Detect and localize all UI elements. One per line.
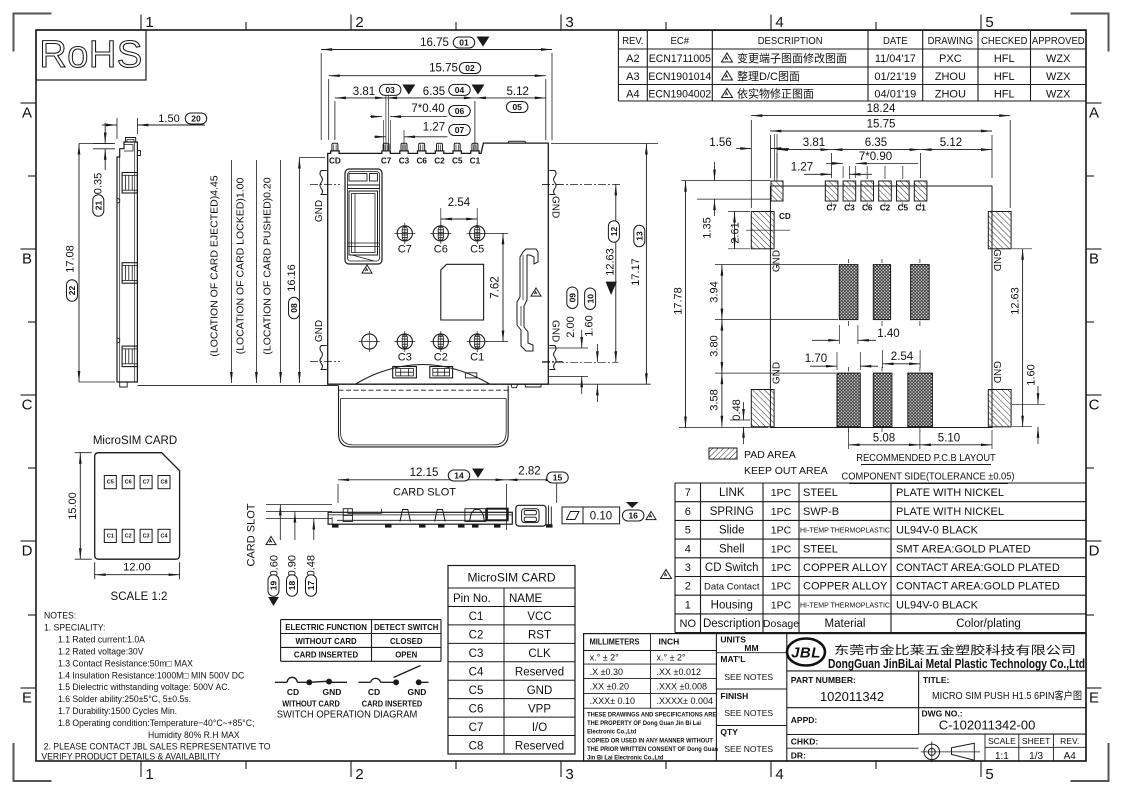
svg-text:OPEN: OPEN bbox=[395, 650, 417, 659]
svg-text:A: A bbox=[22, 105, 32, 122]
svg-text:3.94: 3.94 bbox=[709, 281, 721, 302]
svg-text:2.61: 2.61 bbox=[730, 222, 742, 243]
main top view of SIM connector bbox=[137, 141, 650, 447]
svg-text:C4: C4 bbox=[469, 667, 484, 679]
svg-text:1.60: 1.60 bbox=[583, 315, 595, 336]
svg-text:17.08: 17.08 bbox=[65, 245, 77, 273]
svg-text:C1: C1 bbox=[107, 533, 114, 539]
svg-text:22: 22 bbox=[67, 286, 77, 296]
dimension 15.75 (02) bbox=[328, 79, 330, 140]
svg-text:GND: GND bbox=[772, 250, 783, 272]
dimension 16.16 (08) bbox=[299, 157, 325, 159]
eject spring mechanism bbox=[345, 169, 382, 264]
svg-text:01: 01 bbox=[459, 38, 469, 48]
svg-text:2.54: 2.54 bbox=[891, 351, 914, 363]
svg-text:C7: C7 bbox=[143, 480, 150, 486]
svg-text:1.2 Rated voltage:30V: 1.2 Rated voltage:30V bbox=[58, 646, 143, 656]
CD detect switch contact bbox=[517, 249, 538, 351]
svg-text:B: B bbox=[22, 251, 32, 268]
dimension 3.81 (03) bbox=[334, 101, 336, 140]
svg-text:THE PRIOR WRITTEN CONSENT OF D: THE PRIOR WRITTEN CONSENT OF Dong Guan bbox=[587, 746, 718, 754]
svg-text:03: 03 bbox=[385, 85, 395, 95]
svg-text:TITLE:: TITLE: bbox=[923, 675, 950, 685]
svg-text:7*0.90: 7*0.90 bbox=[859, 151, 892, 163]
svg-text:HFL: HFL bbox=[994, 53, 1015, 65]
svg-text:C8: C8 bbox=[469, 740, 484, 752]
svg-text:CD: CD bbox=[329, 157, 341, 166]
svg-text:PXC: PXC bbox=[939, 53, 962, 65]
svg-text:PART NUMBER:: PART NUMBER: bbox=[791, 675, 856, 685]
svg-text:17: 17 bbox=[306, 581, 316, 591]
svg-text:MAT'L: MAT'L bbox=[720, 654, 745, 664]
svg-text:Color/plating: Color/plating bbox=[956, 618, 1021, 630]
svg-text:NOTES:: NOTES: bbox=[44, 610, 76, 620]
side view of connector bbox=[65, 113, 207, 387]
svg-text:A2: A2 bbox=[626, 53, 639, 65]
MicroSIM pin table bbox=[448, 566, 575, 755]
svg-text:THESE DRAWINGS AND SPECIFICATI: THESE DRAWINGS AND SPECIFICATIONS ARE bbox=[587, 711, 716, 719]
svg-text:SMT AREA:GOLD PLATED: SMT AREA:GOLD PLATED bbox=[896, 543, 1031, 555]
svg-text:Data Contact: Data Contact bbox=[704, 582, 760, 593]
svg-text:C2: C2 bbox=[434, 352, 448, 364]
svg-text:1.8 Operating condition:Temp: 1.8 Operating condition:Temperature−40°C… bbox=[58, 718, 254, 728]
svg-text:APPD:: APPD: bbox=[791, 715, 818, 725]
svg-text:.XXX ±0.008: .XXX ±0.008 bbox=[657, 682, 707, 692]
svg-text:CONTACT AREA:GOLD PLATED: CONTACT AREA:GOLD PLATED bbox=[896, 562, 1060, 574]
svg-text:Jin Bi Lai Electronic Co.,L: Jin Bi Lai Electronic Co.,Ltd bbox=[587, 754, 664, 762]
svg-text:GND: GND bbox=[314, 200, 325, 222]
svg-text:1.6 Solder ability:250±5°C,: 1.6 Solder ability:250±5°C, 5±0.5s. bbox=[58, 694, 191, 704]
svg-text:E: E bbox=[22, 690, 32, 707]
corner GND pads bbox=[751, 212, 774, 249]
svg-text:APPROVED: APPROVED bbox=[1032, 36, 1085, 47]
svg-text:CD: CD bbox=[368, 687, 380, 697]
svg-text:1PC: 1PC bbox=[771, 506, 792, 518]
svg-text:17.78: 17.78 bbox=[673, 287, 685, 315]
svg-text:1:1: 1:1 bbox=[995, 751, 1009, 762]
svg-text:5.10: 5.10 bbox=[938, 433, 960, 445]
svg-text:1PC: 1PC bbox=[771, 525, 792, 537]
svg-text:SCALE 1:2: SCALE 1:2 bbox=[111, 591, 168, 603]
svg-text:CHECKED: CHECKED bbox=[981, 36, 1027, 47]
svg-text:C7: C7 bbox=[469, 722, 484, 734]
svg-text:3: 3 bbox=[565, 14, 573, 31]
svg-text:SWP-B: SWP-B bbox=[803, 506, 839, 518]
svg-text:Housing: Housing bbox=[711, 599, 753, 611]
svg-text:SHEET: SHEET bbox=[1022, 736, 1050, 746]
svg-text:COMPONENT SIDE(TOLERANCE ±0.: COMPONENT SIDE(TOLERANCE ±0.05) bbox=[842, 471, 1015, 482]
svg-text:A: A bbox=[1089, 105, 1099, 122]
svg-text:11/04'17: 11/04'17 bbox=[875, 53, 916, 65]
svg-text:5: 5 bbox=[985, 766, 993, 783]
svg-text:MicroSIM CARD: MicroSIM CARD bbox=[93, 435, 177, 447]
svg-text:02: 02 bbox=[465, 63, 475, 73]
svg-text:4: 4 bbox=[775, 766, 783, 783]
svg-text:ECN1711005: ECN1711005 bbox=[649, 53, 711, 65]
svg-text:1PC: 1PC bbox=[771, 599, 792, 611]
svg-text:3.81: 3.81 bbox=[803, 137, 825, 149]
svg-text:DR:: DR: bbox=[791, 751, 806, 761]
svg-text:CARD INSERTED: CARD INSERTED bbox=[362, 699, 423, 708]
svg-text:4: 4 bbox=[775, 14, 783, 31]
svg-text:16.16: 16.16 bbox=[286, 264, 298, 292]
svg-text:DATE: DATE bbox=[883, 36, 908, 47]
svg-text:C5: C5 bbox=[452, 157, 463, 166]
svg-text:LINK: LINK bbox=[719, 487, 745, 499]
svg-text:CHKD:: CHKD: bbox=[791, 737, 819, 747]
svg-text:2. PLEASE CONTACT JBL SALE: 2. PLEASE CONTACT JBL SALES REPRESENTATI… bbox=[44, 741, 271, 751]
electric function table bbox=[281, 620, 441, 662]
dimension 2.00 (09) bbox=[549, 347, 588, 349]
svg-text:6.35: 6.35 bbox=[423, 86, 445, 98]
svg-text:Electronic Co.,Ltd: Electronic Co.,Ltd bbox=[587, 728, 636, 736]
svg-text:18: 18 bbox=[287, 581, 297, 591]
svg-text:B: B bbox=[1089, 251, 1099, 268]
svg-text:C4: C4 bbox=[160, 533, 168, 539]
svg-text:ECN1904002: ECN1904002 bbox=[648, 88, 711, 100]
svg-text:Material: Material bbox=[825, 618, 866, 630]
svg-text:1.27: 1.27 bbox=[423, 122, 445, 134]
svg-text:GND: GND bbox=[323, 687, 342, 697]
svg-text:06: 06 bbox=[455, 106, 465, 116]
svg-text:5: 5 bbox=[685, 525, 691, 537]
svg-text:整理D/C图面: 整理D/C图面 bbox=[737, 69, 800, 83]
svg-text:3.80: 3.80 bbox=[709, 335, 721, 356]
svg-text:GND: GND bbox=[991, 361, 1002, 383]
svg-text:15.75: 15.75 bbox=[429, 63, 458, 75]
svg-text:1: 1 bbox=[145, 14, 153, 31]
svg-text:Dosage: Dosage bbox=[763, 618, 799, 630]
svg-text:SWITCH OPERATION DIAGRAM: SWITCH OPERATION DIAGRAM bbox=[277, 709, 418, 720]
svg-text:DESCRIPTION: DESCRIPTION bbox=[758, 36, 823, 47]
svg-text:7: 7 bbox=[685, 487, 691, 499]
svg-text:12.15: 12.15 bbox=[410, 467, 439, 479]
svg-text:08: 08 bbox=[289, 303, 299, 313]
svg-text:13: 13 bbox=[635, 231, 645, 241]
svg-text:WITHOUT CARD: WITHOUT CARD bbox=[295, 637, 356, 646]
svg-text:C3: C3 bbox=[143, 533, 150, 539]
svg-text:UL94V-0 BLACK: UL94V-0 BLACK bbox=[896, 525, 979, 537]
svg-text:GND: GND bbox=[314, 320, 325, 342]
svg-text:C8: C8 bbox=[160, 480, 167, 486]
svg-text:5.08: 5.08 bbox=[873, 433, 895, 445]
svg-text:CARD SLOT: CARD SLOT bbox=[246, 503, 258, 566]
svg-text:C3: C3 bbox=[398, 352, 412, 364]
svg-text:DongGuan JinBiLai Metal Plasti: DongGuan JinBiLai Metal Plastic Technolo… bbox=[828, 657, 1085, 671]
svg-text:5: 5 bbox=[985, 14, 993, 31]
svg-text:19: 19 bbox=[269, 581, 279, 591]
svg-text:A4: A4 bbox=[626, 89, 639, 101]
svg-text:1: 1 bbox=[685, 599, 691, 611]
svg-text:Shell: Shell bbox=[719, 543, 745, 555]
dimension 17.17 (13) bbox=[551, 143, 658, 145]
svg-text:7*0.40: 7*0.40 bbox=[411, 103, 444, 115]
svg-text:.XXX± 0.10: .XXX± 0.10 bbox=[590, 696, 635, 706]
svg-text:2: 2 bbox=[355, 766, 363, 783]
svg-text:REV.: REV. bbox=[1060, 736, 1079, 746]
svg-text:2: 2 bbox=[355, 14, 363, 31]
svg-text:MICRO SIM PUSH H1.5 6PIN客户图: MICRO SIM PUSH H1.5 6PIN客户图 bbox=[932, 689, 1082, 702]
svg-text:7.62: 7.62 bbox=[490, 276, 502, 298]
svg-text:REV.: REV. bbox=[622, 36, 643, 47]
dimension 7.62 bbox=[486, 232, 508, 234]
svg-text:1PC: 1PC bbox=[771, 487, 792, 499]
svg-text:VERIFY PRODUCT DETAILS & A: VERIFY PRODUCT DETAILS & AVAILABILITY bbox=[41, 751, 220, 761]
svg-text:C6: C6 bbox=[469, 703, 484, 715]
svg-text:PLATE WITH NICKEL: PLATE WITH NICKEL bbox=[896, 487, 1004, 499]
svg-text:ZHOU: ZHOU bbox=[935, 71, 966, 83]
svg-text:6: 6 bbox=[685, 506, 691, 518]
svg-text:C: C bbox=[1089, 397, 1100, 414]
svg-text:16: 16 bbox=[628, 511, 638, 521]
svg-text:3.81: 3.81 bbox=[353, 86, 375, 98]
svg-text:C5: C5 bbox=[107, 480, 114, 486]
svg-text:1.3 Contact Resistance:50m□: 1.3 Contact Resistance:50m□ MAX bbox=[58, 658, 193, 668]
svg-text:VCC: VCC bbox=[527, 611, 551, 623]
svg-text:1.60: 1.60 bbox=[1026, 364, 1038, 385]
svg-text:C3: C3 bbox=[469, 648, 484, 660]
svg-text:0.60: 0.60 bbox=[269, 555, 281, 576]
svg-text:SEE NOTES: SEE NOTES bbox=[724, 672, 773, 682]
RoHS logo box bbox=[36, 30, 146, 80]
svg-text:1: 1 bbox=[145, 766, 153, 783]
svg-text:Reserved: Reserved bbox=[515, 740, 564, 752]
svg-text:5.12: 5.12 bbox=[940, 137, 962, 149]
svg-text:I/O: I/O bbox=[532, 722, 547, 734]
svg-text:依实物修正图面: 依实物修正图面 bbox=[737, 87, 814, 101]
dimension 12.63 (12) right bbox=[542, 183, 620, 185]
svg-text:SEE NOTES: SEE NOTES bbox=[724, 744, 773, 754]
svg-text:04: 04 bbox=[455, 85, 465, 95]
center cutout window bbox=[441, 264, 484, 320]
svg-text:12: 12 bbox=[609, 227, 619, 237]
svg-text:C6: C6 bbox=[434, 244, 448, 256]
switch operation diagram bbox=[275, 666, 429, 685]
svg-text:C6: C6 bbox=[416, 157, 427, 166]
dimension 7*0.40 (06) bbox=[383, 120, 385, 150]
svg-text:CARD INSERTED: CARD INSERTED bbox=[294, 650, 358, 659]
location of card dims bbox=[230, 160, 232, 383]
svg-text:WZX: WZX bbox=[1046, 53, 1071, 65]
svg-text:QTY: QTY bbox=[720, 727, 738, 737]
svg-text:1.50: 1.50 bbox=[158, 113, 179, 125]
svg-text:12.00: 12.00 bbox=[123, 562, 151, 574]
dimension 6.35 (04) bbox=[474, 101, 476, 150]
svg-text:CLOSED: CLOSED bbox=[390, 637, 423, 646]
svg-text:0.35: 0.35 bbox=[93, 173, 105, 194]
dimension 5.12 (05) bbox=[475, 97, 546, 99]
svg-text:PLATE WITH NICKEL: PLATE WITH NICKEL bbox=[896, 506, 1004, 518]
svg-text:EC#: EC# bbox=[671, 36, 690, 47]
svg-text:1PC: 1PC bbox=[771, 562, 792, 574]
svg-text:THE PROPERTY OF Dong Guan Jin: THE PROPERTY OF Dong Guan Jin Bi Lai bbox=[587, 720, 701, 728]
dimension 1.60 (10) bbox=[596, 344, 598, 362]
svg-text:C2: C2 bbox=[469, 630, 484, 642]
pad center ticks bbox=[848, 166, 850, 179]
svg-text:(LOCATION OF CARD LOCKED)1.: (LOCATION OF CARD LOCKED)1.00 bbox=[235, 178, 247, 355]
svg-text:A4: A4 bbox=[1064, 751, 1077, 762]
svg-text:09: 09 bbox=[568, 293, 578, 303]
svg-text:C1: C1 bbox=[470, 157, 481, 166]
svg-text:DRAWING: DRAWING bbox=[928, 36, 974, 47]
svg-text:(LOCATION OF CARD EJECTED)4: (LOCATION OF CARD EJECTED)4.45 bbox=[209, 175, 221, 356]
svg-text:Reserved: Reserved bbox=[515, 667, 564, 679]
svg-text:GND: GND bbox=[408, 687, 427, 697]
svg-text:CARD SLOT: CARD SLOT bbox=[393, 487, 456, 499]
svg-text:1/3: 1/3 bbox=[1029, 751, 1043, 762]
svg-text:VPP: VPP bbox=[528, 703, 551, 715]
microsim card outline bbox=[67, 435, 180, 603]
svg-text:17.17: 17.17 bbox=[630, 258, 642, 286]
svg-text:HI-TEMP THERMOPLASTIC: HI-TEMP THERMOPLASTIC bbox=[800, 528, 890, 535]
svg-text:1.70: 1.70 bbox=[805, 353, 827, 365]
svg-text:C: C bbox=[22, 397, 33, 414]
svg-text:1.5 Dielectric withstanding: 1.5 Dielectric withstanding voltage: 500… bbox=[58, 682, 230, 692]
svg-text:0.90: 0.90 bbox=[287, 555, 299, 576]
svg-text:UNITS: UNITS bbox=[720, 635, 746, 645]
svg-text:Description: Description bbox=[703, 618, 761, 630]
svg-text:CD: CD bbox=[779, 212, 791, 221]
svg-text:x.° ± 2°: x.° ± 2° bbox=[657, 653, 687, 663]
svg-text:12.63: 12.63 bbox=[605, 248, 617, 276]
svg-text:RoHS: RoHS bbox=[39, 34, 142, 76]
svg-text:3.58: 3.58 bbox=[709, 389, 721, 410]
svg-text:WITHOUT CARD: WITHOUT CARD bbox=[282, 699, 340, 708]
svg-text:18.24: 18.24 bbox=[867, 103, 896, 115]
svg-text:C2: C2 bbox=[434, 157, 445, 166]
svg-text:COPIED OR USED IN ANY MANNER W: COPIED OR USED IN ANY MANNER WITHOUT bbox=[587, 737, 713, 745]
svg-text:C3: C3 bbox=[399, 157, 410, 166]
svg-text:2: 2 bbox=[685, 581, 691, 593]
svg-text:A3: A3 bbox=[626, 71, 639, 83]
svg-text:3: 3 bbox=[565, 766, 573, 783]
svg-text:GND: GND bbox=[527, 685, 553, 697]
middle slot pads bbox=[839, 265, 858, 320]
svg-text:HFL: HFL bbox=[994, 89, 1015, 101]
svg-text:MicroSIM CARD: MicroSIM CARD bbox=[467, 571, 555, 585]
svg-text:PAD AREA: PAD AREA bbox=[744, 449, 796, 461]
card stop arc bbox=[356, 365, 490, 385]
pcb dims bbox=[673, 103, 1046, 484]
svg-text:14: 14 bbox=[454, 471, 464, 481]
svg-text:0.10: 0.10 bbox=[590, 511, 612, 523]
svg-text:0.48: 0.48 bbox=[731, 399, 743, 420]
svg-text:x.° ± 2°: x.° ± 2° bbox=[590, 653, 620, 663]
svg-text:1. SPECIALITY:: 1. SPECIALITY: bbox=[44, 622, 105, 632]
svg-text:MILLIMETERS: MILLIMETERS bbox=[590, 637, 640, 646]
svg-text:FINISH: FINISH bbox=[720, 691, 748, 701]
inserted card outline bbox=[339, 386, 509, 447]
svg-text:C6: C6 bbox=[125, 480, 132, 486]
svg-text:C2: C2 bbox=[125, 533, 132, 539]
svg-text:RST: RST bbox=[528, 630, 551, 642]
svg-text:1.35: 1.35 bbox=[702, 217, 714, 238]
svg-text:RECOMMENDED P.C.B LAYOUT: RECOMMENDED P.C.B LAYOUT bbox=[856, 453, 996, 464]
svg-text:1.4 Insulation Resistance:10: 1.4 Insulation Resistance:1000M□ MIN 500… bbox=[58, 670, 245, 680]
contact pads C1-C7 bbox=[397, 226, 412, 241]
svg-text:SPRING: SPRING bbox=[710, 506, 754, 518]
svg-text:07: 07 bbox=[455, 125, 465, 135]
svg-text:05: 05 bbox=[512, 102, 522, 112]
svg-text:CD Switch: CD Switch bbox=[705, 562, 759, 574]
svg-text:10: 10 bbox=[585, 294, 595, 304]
card slot side view bbox=[246, 466, 657, 607]
third angle projection symbol bbox=[921, 742, 980, 763]
svg-text:ELECTRIC FUNCTION: ELECTRIC FUNCTION bbox=[285, 623, 367, 632]
svg-text:WZX: WZX bbox=[1046, 71, 1071, 83]
svg-text:NO: NO bbox=[680, 618, 697, 630]
svg-text:UL94V-0 BLACK: UL94V-0 BLACK bbox=[896, 599, 979, 611]
svg-text:102011342: 102011342 bbox=[820, 689, 884, 704]
svg-text:1.56: 1.56 bbox=[709, 137, 731, 149]
svg-text:DETECT SWITCH: DETECT SWITCH bbox=[374, 623, 438, 632]
svg-text:CD: CD bbox=[287, 687, 299, 697]
svg-text:0.48: 0.48 bbox=[306, 555, 318, 576]
svg-text:D: D bbox=[1089, 543, 1100, 560]
recommended PCB layout bbox=[751, 166, 1011, 432]
svg-text:STEEL: STEEL bbox=[803, 487, 838, 499]
svg-text:C7: C7 bbox=[398, 244, 412, 256]
revision table bbox=[618, 31, 1086, 102]
pin pads with hatch bbox=[825, 181, 838, 201]
svg-text:STEEL: STEEL bbox=[803, 543, 838, 555]
svg-text:4: 4 bbox=[685, 543, 691, 555]
svg-text:GND: GND bbox=[550, 196, 561, 218]
svg-text:HFL: HFL bbox=[994, 71, 1015, 83]
svg-text:04/01'19: 04/01'19 bbox=[874, 89, 916, 101]
svg-text:1.40: 1.40 bbox=[877, 328, 899, 340]
bottom slot pads bbox=[837, 373, 860, 427]
svg-text:SCALE: SCALE bbox=[988, 736, 1016, 746]
svg-text:12.63: 12.63 bbox=[1010, 287, 1022, 315]
svg-text:CLK: CLK bbox=[528, 648, 551, 660]
svg-text:Pin No.: Pin No. bbox=[453, 593, 491, 605]
svg-text:.XXXX± 0.004: .XXXX± 0.004 bbox=[657, 696, 713, 706]
svg-text:3: 3 bbox=[685, 562, 691, 574]
svg-text:GND: GND bbox=[991, 249, 1002, 271]
svg-text:20: 20 bbox=[191, 114, 201, 124]
svg-text:C1: C1 bbox=[469, 611, 484, 623]
svg-text:东莞市金比莱五金塑胶科技有限公司: 东莞市金比莱五金塑胶科技有限公司 bbox=[834, 643, 1076, 657]
svg-text:COPPER ALLOY: COPPER ALLOY bbox=[803, 562, 888, 574]
svg-text:D: D bbox=[22, 543, 33, 560]
svg-text:.XX ±0.20: .XX ±0.20 bbox=[590, 682, 629, 692]
svg-text:1.7 Durability:1500 Cycles: 1.7 Durability:1500 Cycles Min. bbox=[58, 706, 177, 716]
svg-text:SEE NOTES: SEE NOTES bbox=[724, 708, 773, 718]
svg-text:CONTACT AREA:GOLD PLATED: CONTACT AREA:GOLD PLATED bbox=[896, 581, 1060, 593]
svg-text:C5: C5 bbox=[470, 244, 484, 256]
svg-text:01/21'19: 01/21'19 bbox=[874, 71, 916, 83]
title block bbox=[584, 634, 1086, 763]
svg-text:Humidity 80% R.H MAX: Humidity 80% R.H MAX bbox=[148, 730, 240, 740]
svg-text:C1: C1 bbox=[470, 352, 484, 364]
svg-text:2.54: 2.54 bbox=[448, 197, 471, 209]
svg-text:E: E bbox=[1089, 690, 1099, 707]
svg-text:15.75: 15.75 bbox=[867, 119, 896, 131]
svg-text:KEEP OUT AREA: KEEP OUT AREA bbox=[744, 465, 828, 477]
svg-text:1PC: 1PC bbox=[771, 543, 792, 555]
parts list table bbox=[661, 483, 1087, 633]
JBL logo bbox=[787, 639, 825, 666]
dimension 1.27 (07) bbox=[403, 130, 405, 150]
svg-text:Slide: Slide bbox=[719, 525, 745, 537]
svg-text:1PC: 1PC bbox=[771, 581, 792, 593]
svg-text:2.00: 2.00 bbox=[565, 316, 577, 337]
svg-text:JBL: JBL bbox=[791, 645, 821, 662]
svg-text:WZX: WZX bbox=[1046, 89, 1071, 101]
svg-text:.XX ±0.012: .XX ±0.012 bbox=[657, 667, 701, 677]
svg-text:16.75: 16.75 bbox=[420, 37, 449, 49]
